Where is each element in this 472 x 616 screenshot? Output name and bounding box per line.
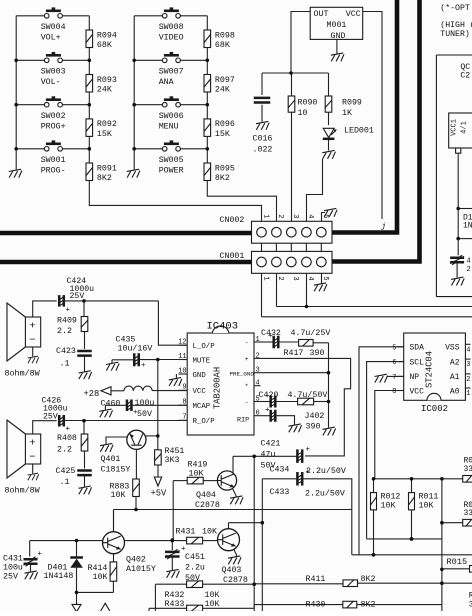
svg-text:+5V: +5V bbox=[151, 489, 168, 499]
svg-text:+: + bbox=[38, 551, 43, 559]
svg-text:+: + bbox=[245, 356, 249, 363]
svg-text:7: 7 bbox=[182, 414, 186, 422]
svg-text:IC002: IC002 bbox=[421, 404, 448, 414]
svg-text:+: + bbox=[66, 426, 71, 434]
svg-text:2.2: 2.2 bbox=[57, 446, 72, 455]
svg-text:C433: C433 bbox=[270, 488, 290, 497]
svg-text:15K: 15K bbox=[215, 130, 230, 139]
svg-text:+: + bbox=[66, 307, 71, 315]
svg-text:A1: A1 bbox=[450, 373, 460, 382]
svg-text:1K: 1K bbox=[342, 109, 352, 118]
svg-text:C016: C016 bbox=[253, 135, 273, 144]
svg-text:C432: C432 bbox=[261, 329, 281, 338]
svg-text:8: 8 bbox=[182, 399, 186, 407]
svg-text:C421: C421 bbox=[261, 440, 281, 449]
svg-text:VOL-: VOL- bbox=[41, 78, 61, 87]
svg-text:IC403: IC403 bbox=[207, 321, 239, 333]
svg-text:NP: NP bbox=[410, 373, 420, 382]
svg-text:LED001: LED001 bbox=[344, 127, 374, 136]
svg-text:4: 4 bbox=[256, 380, 260, 388]
svg-text:+: + bbox=[141, 362, 146, 370]
svg-text:GND: GND bbox=[193, 372, 207, 380]
svg-text:VCC1: VCC1 bbox=[451, 119, 459, 136]
svg-text:R411: R411 bbox=[306, 575, 326, 584]
svg-text:R094: R094 bbox=[97, 31, 117, 40]
svg-text:R_O/P: R_O/P bbox=[193, 418, 216, 426]
svg-text:4: 4 bbox=[466, 346, 470, 354]
svg-text:C2878: C2878 bbox=[195, 501, 220, 510]
svg-text:3: 3 bbox=[256, 367, 260, 375]
svg-text:A0: A0 bbox=[450, 387, 460, 396]
svg-text:C431: C431 bbox=[3, 555, 23, 564]
svg-text:24K: 24K bbox=[97, 86, 112, 95]
svg-text:R417: R417 bbox=[284, 349, 304, 358]
svg-text:33: 33 bbox=[464, 509, 472, 518]
svg-text:D401: D401 bbox=[48, 563, 68, 572]
svg-text:Q402: Q402 bbox=[126, 556, 146, 565]
svg-text:+: + bbox=[306, 469, 311, 477]
svg-text:−: − bbox=[29, 334, 35, 346]
svg-text:3K3: 3K3 bbox=[165, 456, 180, 465]
svg-text:SW008: SW008 bbox=[159, 23, 184, 32]
svg-text:VCC: VCC bbox=[346, 10, 361, 19]
svg-text:−: − bbox=[29, 451, 35, 463]
svg-text:50V: 50V bbox=[185, 574, 200, 583]
svg-text:1N4148: 1N4148 bbox=[44, 572, 74, 581]
svg-text:TAB200AH: TAB200AH bbox=[213, 367, 223, 409]
svg-text:2.2u/50V: 2.2u/50V bbox=[305, 489, 345, 499]
svg-text:R091: R091 bbox=[97, 164, 117, 173]
svg-text:+: + bbox=[265, 407, 270, 415]
svg-text:A1015Y: A1015Y bbox=[126, 565, 156, 574]
svg-text:M001: M001 bbox=[327, 21, 347, 30]
svg-text:R015: R015 bbox=[447, 557, 468, 567]
svg-text:R432: R432 bbox=[165, 591, 185, 600]
svg-text:VCC: VCC bbox=[410, 387, 425, 396]
svg-text:Q401: Q401 bbox=[101, 455, 121, 464]
svg-text:1: 1 bbox=[256, 336, 260, 344]
svg-text:+: + bbox=[29, 321, 35, 333]
svg-text:15K: 15K bbox=[97, 130, 112, 139]
svg-text:SDA: SDA bbox=[410, 344, 425, 353]
svg-text:CN001: CN001 bbox=[220, 252, 245, 261]
svg-text:100u: 100u bbox=[3, 564, 23, 573]
svg-text:SCL: SCL bbox=[410, 358, 425, 367]
svg-text:2: 2 bbox=[276, 214, 284, 218]
svg-text:2.2u/50V: 2.2u/50V bbox=[306, 466, 346, 476]
svg-text:10K: 10K bbox=[419, 502, 434, 511]
svg-text:+: + bbox=[133, 409, 138, 417]
svg-text:10K: 10K bbox=[202, 528, 217, 537]
svg-text:R093: R093 bbox=[97, 76, 117, 85]
svg-text:PRE_GND: PRE_GND bbox=[230, 370, 255, 377]
svg-text:C425: C425 bbox=[56, 467, 76, 476]
svg-text:10: 10 bbox=[178, 367, 186, 375]
svg-text:CN002: CN002 bbox=[220, 216, 245, 225]
svg-text:8K2: 8K2 bbox=[361, 575, 376, 584]
svg-text:MUTE: MUTE bbox=[193, 357, 211, 365]
svg-text:68K: 68K bbox=[215, 41, 230, 50]
svg-text:68K: 68K bbox=[97, 41, 112, 50]
svg-text:2: 2 bbox=[256, 352, 260, 360]
svg-text:PROG-: PROG- bbox=[41, 167, 66, 176]
svg-text:10K: 10K bbox=[205, 600, 220, 609]
svg-text:POWER: POWER bbox=[159, 167, 184, 176]
svg-text:7: 7 bbox=[392, 374, 396, 382]
svg-text:SW003: SW003 bbox=[41, 68, 66, 77]
svg-text:R098: R098 bbox=[215, 31, 235, 40]
svg-text:R430: R430 bbox=[306, 601, 326, 610]
svg-text:3: 3 bbox=[466, 361, 470, 369]
svg-text:4: 4 bbox=[306, 276, 314, 280]
svg-text:SW005: SW005 bbox=[159, 156, 184, 165]
svg-text:.1: .1 bbox=[60, 360, 70, 369]
svg-text:C435: C435 bbox=[116, 336, 136, 345]
svg-text:3: 3 bbox=[291, 276, 299, 280]
svg-text:R095: R095 bbox=[215, 164, 235, 173]
svg-text:11: 11 bbox=[178, 353, 186, 361]
svg-text:+: + bbox=[306, 446, 311, 454]
svg-text:25V: 25V bbox=[3, 573, 18, 582]
svg-text:MENU: MENU bbox=[159, 122, 179, 131]
svg-text:OUT: OUT bbox=[314, 10, 329, 19]
svg-text:4/1: 4/1 bbox=[461, 121, 469, 134]
svg-text:10K: 10K bbox=[93, 573, 108, 582]
svg-text:J402: J402 bbox=[305, 412, 325, 421]
svg-text:8K2: 8K2 bbox=[97, 174, 112, 183]
svg-text:Q403: Q403 bbox=[222, 566, 242, 575]
svg-text:*: * bbox=[245, 383, 249, 390]
svg-text:1: 1 bbox=[261, 214, 269, 218]
svg-text:25V: 25V bbox=[43, 413, 58, 422]
svg-text:(HIGH (: (HIGH ( bbox=[440, 20, 472, 30]
svg-text:10: 10 bbox=[298, 109, 308, 118]
svg-text:VSS: VSS bbox=[445, 344, 460, 353]
svg-text:+: + bbox=[29, 438, 35, 450]
svg-text:VOL+: VOL+ bbox=[41, 34, 61, 43]
svg-text:2: 2 bbox=[466, 376, 470, 384]
svg-text:2: 2 bbox=[467, 266, 471, 274]
svg-text:3: 3 bbox=[291, 214, 299, 218]
svg-text:4: 4 bbox=[467, 258, 471, 266]
svg-text:VIDEO: VIDEO bbox=[159, 34, 184, 43]
svg-text:24K: 24K bbox=[215, 86, 230, 95]
svg-text:4: 4 bbox=[306, 214, 314, 218]
svg-text:A2: A2 bbox=[450, 358, 460, 367]
svg-text:100u: 100u bbox=[135, 399, 155, 408]
svg-text:VCC: VCC bbox=[193, 388, 207, 396]
svg-text:390: 390 bbox=[310, 349, 325, 358]
svg-text:L_O/P: L_O/P bbox=[193, 343, 216, 351]
svg-text:25V: 25V bbox=[70, 292, 85, 301]
svg-text:R431: R431 bbox=[176, 528, 196, 537]
svg-text:R409: R409 bbox=[57, 317, 77, 326]
svg-text:R096: R096 bbox=[215, 120, 235, 129]
svg-text:R414: R414 bbox=[88, 564, 108, 573]
svg-text:10K: 10K bbox=[111, 491, 126, 500]
svg-text:47u: 47u bbox=[261, 451, 276, 460]
svg-text:2.2: 2.2 bbox=[57, 327, 72, 336]
svg-text:SW001: SW001 bbox=[41, 156, 66, 165]
svg-text:4.7u/50V: 4.7u/50V bbox=[288, 390, 328, 400]
svg-text:-: - bbox=[245, 399, 249, 406]
svg-text:8: 8 bbox=[392, 388, 396, 396]
svg-text:ST24C04: ST24C04 bbox=[425, 351, 435, 388]
svg-text:R012: R012 bbox=[381, 493, 401, 502]
svg-text:5: 5 bbox=[321, 276, 329, 280]
svg-text:Q404: Q404 bbox=[196, 491, 216, 500]
svg-text:C434: C434 bbox=[270, 466, 290, 475]
svg-text:9: 9 bbox=[182, 384, 186, 392]
svg-text:1: 1 bbox=[466, 390, 470, 398]
svg-text:+28: +28 bbox=[84, 389, 100, 399]
svg-text:RIP: RIP bbox=[237, 417, 249, 425]
svg-text:-: - bbox=[245, 340, 249, 347]
svg-text:R433: R433 bbox=[165, 600, 185, 609]
svg-text:10K: 10K bbox=[381, 502, 396, 511]
svg-text:.1: .1 bbox=[60, 478, 70, 487]
svg-text:R451: R451 bbox=[165, 447, 185, 456]
svg-text:390: 390 bbox=[306, 423, 321, 432]
svg-text:C451: C451 bbox=[185, 553, 205, 562]
svg-text:R011: R011 bbox=[419, 493, 439, 502]
svg-text:.022: .022 bbox=[253, 146, 273, 155]
svg-text:R090: R090 bbox=[298, 99, 318, 108]
svg-text:8ohm/8W: 8ohm/8W bbox=[5, 369, 41, 379]
svg-text:PROG+: PROG+ bbox=[41, 122, 66, 131]
svg-text:33: 33 bbox=[464, 465, 472, 474]
svg-text:SW004: SW004 bbox=[41, 23, 66, 32]
svg-text:SW002: SW002 bbox=[41, 112, 66, 121]
svg-text:GND: GND bbox=[331, 32, 346, 41]
svg-text:2: 2 bbox=[276, 276, 284, 280]
svg-text:2.2u: 2.2u bbox=[185, 564, 205, 573]
svg-text:SW006: SW006 bbox=[159, 112, 184, 121]
svg-text:8K2: 8K2 bbox=[215, 174, 230, 183]
svg-text:ANA: ANA bbox=[159, 78, 174, 87]
svg-text:10u/16V: 10u/16V bbox=[118, 344, 153, 354]
svg-text:R099: R099 bbox=[342, 99, 362, 108]
svg-text:(*-OPT: (*-OPT bbox=[440, 3, 470, 13]
svg-text:6: 6 bbox=[392, 359, 396, 367]
svg-text:C1815Y: C1815Y bbox=[101, 466, 131, 475]
svg-text:SW007: SW007 bbox=[159, 68, 184, 77]
svg-text:12: 12 bbox=[178, 339, 186, 347]
svg-text:5: 5 bbox=[392, 344, 396, 352]
svg-text:10K: 10K bbox=[205, 591, 220, 600]
svg-text:TUNER): TUNER) bbox=[440, 29, 469, 39]
svg-text:5: 5 bbox=[321, 214, 329, 218]
svg-text:R419: R419 bbox=[188, 461, 208, 470]
svg-text:R097: R097 bbox=[215, 76, 235, 85]
svg-text:1: 1 bbox=[261, 276, 269, 280]
svg-text:1N: 1N bbox=[463, 222, 472, 231]
svg-text:6: 6 bbox=[256, 410, 260, 418]
svg-text:4.7u/25V: 4.7u/25V bbox=[291, 328, 331, 338]
svg-text:8ohm/8W: 8ohm/8W bbox=[5, 486, 41, 496]
svg-text:C423: C423 bbox=[56, 347, 76, 356]
svg-text:MCAP: MCAP bbox=[193, 403, 211, 411]
svg-text:C2: C2 bbox=[460, 72, 470, 81]
svg-text:C460: C460 bbox=[101, 399, 121, 408]
svg-text:50V: 50V bbox=[137, 410, 152, 419]
svg-text:R092: R092 bbox=[97, 120, 117, 129]
svg-text:R408: R408 bbox=[57, 434, 77, 443]
svg-text:C2878: C2878 bbox=[223, 576, 248, 585]
svg-text:+: + bbox=[265, 393, 270, 401]
svg-text:10K: 10K bbox=[189, 470, 204, 479]
svg-text:8K2: 8K2 bbox=[361, 601, 376, 610]
